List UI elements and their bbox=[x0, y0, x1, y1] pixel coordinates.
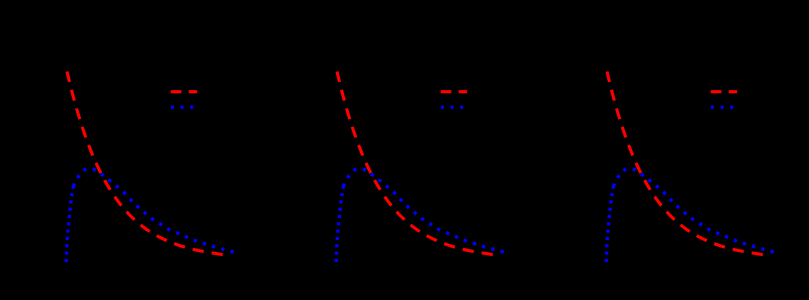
blue dotted curve: peak and decay segment bbox=[343, 169, 506, 253]
axes frame (black on black) bbox=[326, 34, 515, 270]
red dashed curve: exponential decay bbox=[337, 72, 498, 256]
legend red dashed sample bbox=[441, 90, 468, 93]
legend red dashed sample bbox=[171, 90, 198, 93]
red dashed curve: exponential decay bbox=[607, 72, 768, 256]
legend blue dotted sample bbox=[171, 105, 193, 108]
blue dotted curve: steep rise segment bbox=[336, 187, 343, 263]
blue dotted curve: steep rise segment bbox=[66, 187, 73, 263]
subplot 3 bbox=[596, 34, 785, 270]
blue dotted curve: steep rise segment bbox=[606, 187, 613, 263]
blue dotted curve: peak and decay segment bbox=[613, 169, 776, 253]
axes frame (black on black) bbox=[56, 34, 245, 270]
legend red dashed sample bbox=[711, 90, 738, 93]
subplot 1 bbox=[56, 34, 245, 270]
red dashed curve: exponential decay bbox=[67, 72, 228, 256]
legend blue dotted sample bbox=[441, 105, 463, 108]
axes frame (black on black) bbox=[596, 34, 785, 270]
subplot 2 bbox=[326, 34, 515, 270]
legend blue dotted sample bbox=[711, 105, 733, 108]
blue dotted curve: peak and decay segment bbox=[73, 169, 236, 253]
